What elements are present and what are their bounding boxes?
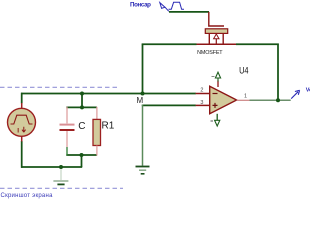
wire op-amp pin3 left — [142, 104, 196, 106]
capacitor C top lead — [66, 107, 68, 124]
op-amp U4 pin 2 lead — [196, 93, 210, 95]
wire output — [250, 99, 291, 101]
node junction dot output — [276, 98, 280, 102]
resistor R1 top lead — [96, 107, 98, 120]
ground lead left — [60, 169, 62, 180]
op-amp U4 pin 3 lead — [196, 104, 210, 106]
wire mosfet down-left — [142, 44, 144, 94]
wire mosfet left — [142, 43, 197, 45]
node M junction dot — [141, 92, 145, 96]
svg-text:U4: U4 — [239, 64, 249, 75]
wire pin3 drop to ground — [142, 105, 144, 166]
generator G1 arrow — [160, 3, 169, 12]
node junction dot ground tap — [59, 165, 63, 169]
transistor Q1 bulk stem — [215, 39, 217, 45]
wire top rail — [21, 93, 196, 95]
transistor Q1 channel bar — [205, 29, 227, 34]
transistor Q1 NMOSFET gate lead — [209, 12, 224, 26]
wire gate top — [169, 11, 209, 13]
wire source top — [21, 93, 23, 104]
svg-text:Понсар: Понсар — [130, 2, 151, 9]
guide dashed line top — [0, 86, 117, 88]
svg-text:M: M — [137, 96, 144, 105]
svg-text:R1: R1 — [102, 120, 115, 131]
svg-text:I: I — [17, 128, 19, 135]
source V1 top pin — [21, 103, 23, 109]
ground middle bar 1 — [136, 166, 150, 168]
source V1 body circle — [8, 108, 36, 136]
node junction dot CR top — [80, 105, 84, 109]
svg-text:3: 3 — [200, 100, 203, 106]
capacitor C plate 2 — [60, 129, 75, 131]
transistor Q1 channel rail pin — [197, 43, 237, 45]
generator G1 pulse glyph — [169, 2, 185, 9]
svg-text:2: 2 — [200, 88, 203, 94]
svg-text:1: 1 — [244, 94, 247, 100]
transistor Q1 source leg — [222, 33, 224, 44]
transistor Q1 drain leg — [208, 33, 210, 44]
wire bottom rail — [21, 166, 82, 168]
wire drop to CR rail — [81, 94, 83, 108]
wire CR bottom rail — [66, 154, 97, 156]
transistor Q1 bulk arrow — [214, 34, 219, 39]
svg-text:C: C — [78, 121, 85, 132]
resistor R1 bottom lead — [96, 146, 98, 156]
op-amp U4 output pin lead — [237, 99, 250, 101]
wire capacitor bottom — [66, 147, 68, 156]
op-amp U4 V- power pin — [216, 114, 218, 121]
node junction dot rail-C — [80, 92, 84, 96]
capacitor C plate 1 — [60, 124, 75, 126]
svg-text:Vo: Vo — [306, 87, 310, 93]
wire source bottom — [21, 141, 23, 168]
resistor R1 body — [93, 119, 101, 145]
op-amp U4 V- pin tick — [211, 120, 214, 122]
ground middle bar 2 — [139, 169, 146, 171]
op-amp U4 body triangle — [210, 86, 237, 113]
wire mosfet right — [236, 43, 279, 45]
svg-text:Скриншот экрана: Скриншот экрана — [1, 193, 54, 199]
ground left bar 2 — [57, 183, 64, 185]
source V1 pulse glyph — [11, 115, 33, 124]
wire mosfet down-right — [277, 44, 279, 101]
ground middle bar 3 — [141, 173, 145, 175]
svg-text:NMOSFET: NMOSFET — [197, 50, 223, 56]
capacitor C bottom lead — [66, 131, 68, 147]
op-amp U4 V+ power pin — [217, 81, 219, 88]
source V1 current arrow — [22, 127, 26, 132]
op-amp U4 V+ power arrow — [215, 72, 220, 81]
op-amp U4 plus sign — [213, 103, 218, 108]
probe P1 stem — [291, 92, 298, 99]
probe P1 arrowhead — [295, 90, 300, 95]
node junction dot CR bottom — [80, 153, 84, 157]
source V1 bottom pin — [21, 136, 23, 142]
op-amp U4 V+ pin tick — [212, 76, 215, 78]
ground left bar 1 — [53, 180, 68, 182]
guide dashed line bottom — [0, 187, 123, 189]
wire drop CR to bottom rail — [81, 155, 83, 167]
wire CR top rail — [66, 106, 97, 108]
op-amp U4 V- power arrow — [215, 120, 220, 126]
op-amp U4 minus sign — [213, 93, 218, 95]
